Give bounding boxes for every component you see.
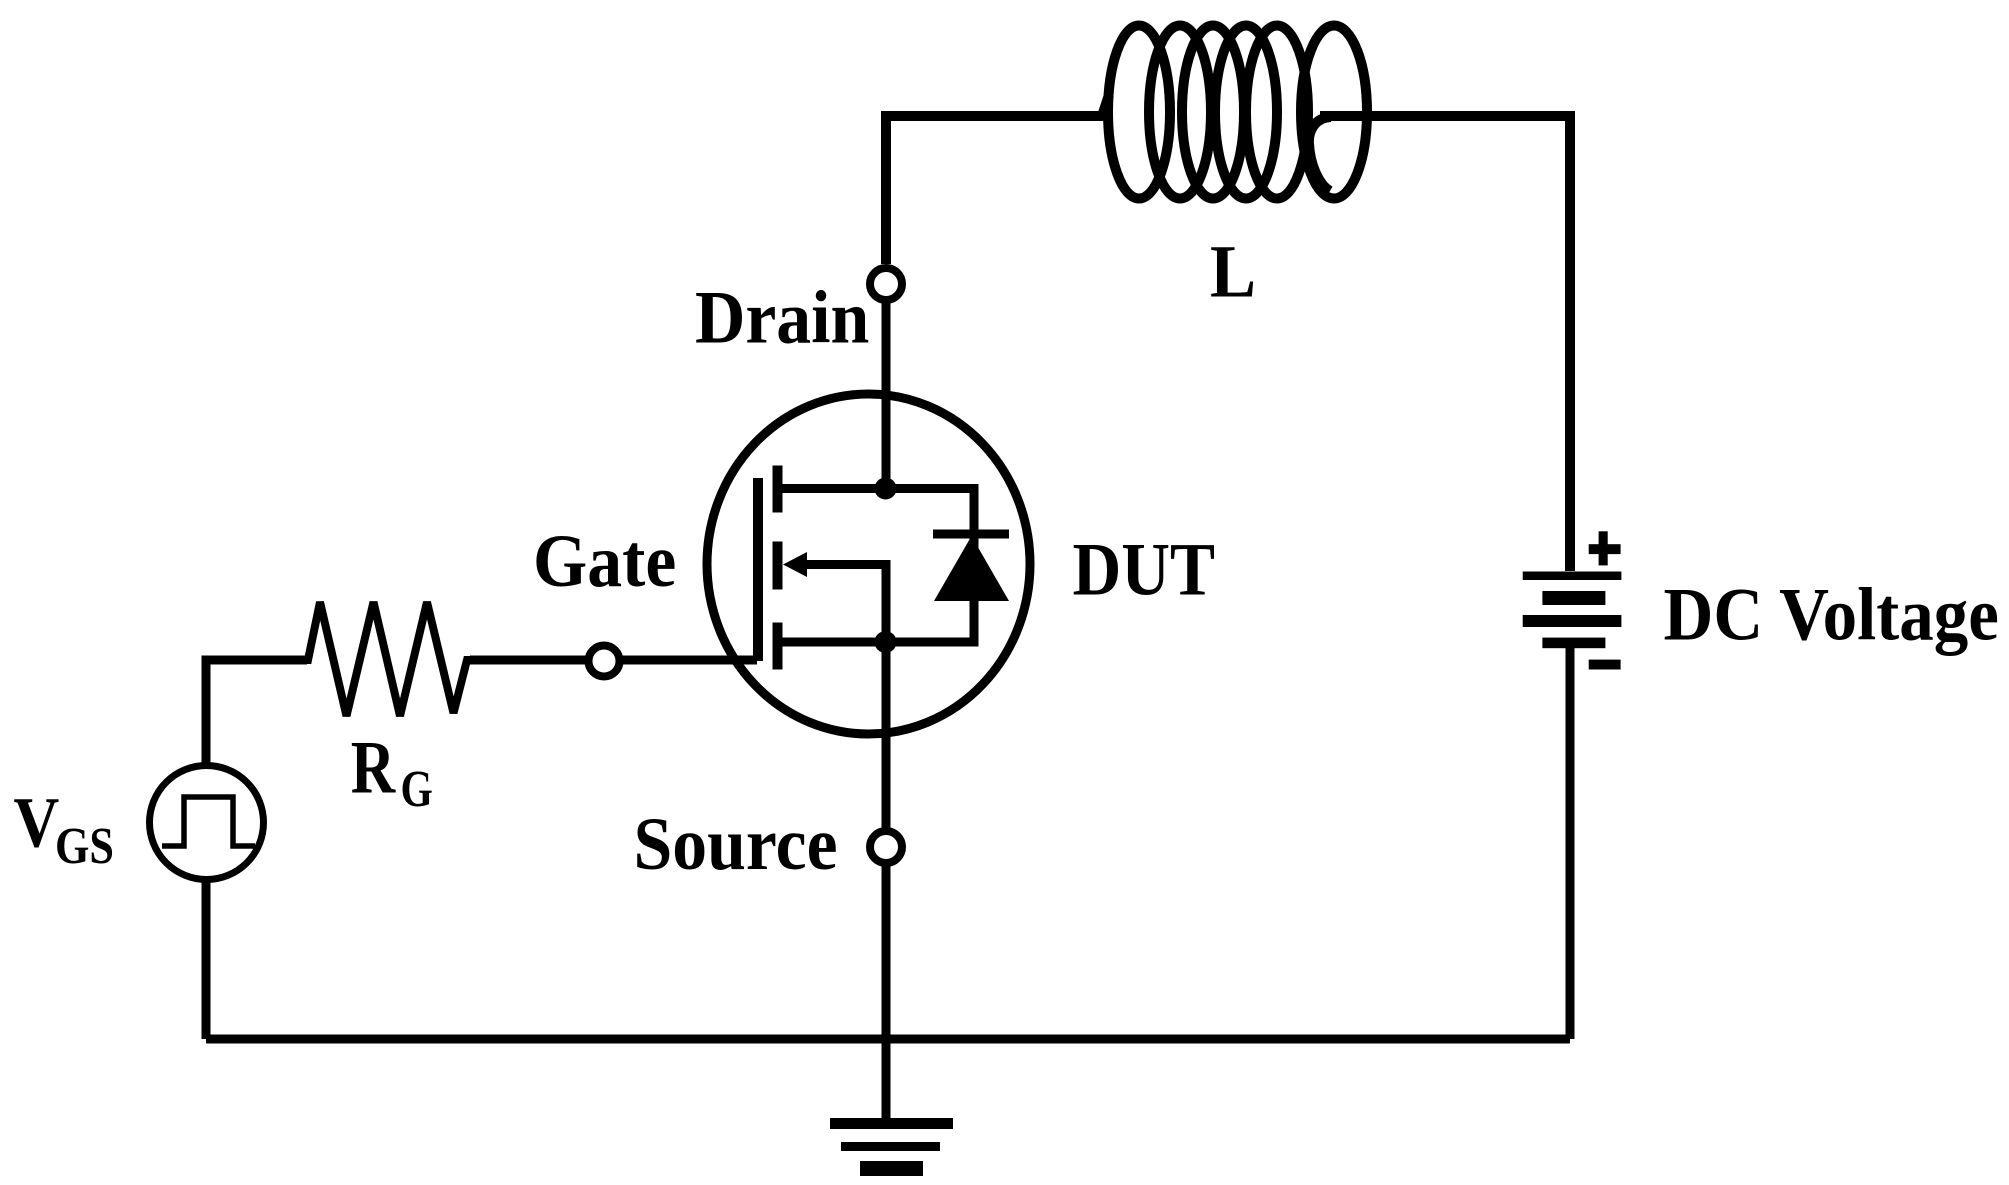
wire: right lower from battery to bottom rail — [1566, 648, 1575, 1039]
svg-text:Drain: Drain — [695, 275, 869, 359]
svg-text:G: G — [401, 761, 433, 818]
wire: left column upper (Vgs to corner) and horizontal to resistor — [206, 660, 307, 766]
svg-text:DUT: DUT — [1073, 528, 1215, 611]
MOSFET body arrow line — [806, 565, 886, 643]
wire: left column lower (bottom rail to Vgs source) — [202, 880, 211, 1039]
ground bar 3 — [860, 1161, 923, 1176]
battery B1 plate 1 (long top) — [1523, 572, 1622, 581]
svg-text:GS: GS — [55, 818, 114, 875]
battery B1 plate 4 (short) — [1542, 638, 1605, 649]
MOSFET gate electrode bar — [753, 478, 763, 661]
inductor L — [1108, 26, 1367, 199]
ground bar 1 — [830, 1118, 953, 1129]
MOSFET channel segment bottom — [773, 623, 783, 670]
MOSFET channel segment top — [773, 466, 783, 513]
body diode cathode bar — [933, 530, 1009, 539]
svg-text:Gate: Gate — [533, 519, 676, 603]
MOSFET drain internal horizontal, right branch and source internal horizontal — [777, 489, 974, 643]
svg-text:DC Voltage: DC Voltage — [1664, 573, 1999, 656]
battery B1 plate 3 (long) — [1523, 615, 1622, 627]
MOSFET body arrowhead — [783, 552, 807, 577]
MOSFET channel segment middle — [773, 542, 783, 590]
wire: gate lead from resistor to gate terminal — [470, 656, 588, 665]
wire: top right segment from inductor to battery — [1320, 116, 1570, 571]
battery B1 plus sign — [1589, 531, 1621, 565]
svg-text:V: V — [14, 783, 60, 863]
pulse source VGS circle — [150, 766, 264, 880]
source junction dot — [875, 631, 897, 653]
svg-text:R: R — [351, 726, 397, 809]
MOSFET DUT body circle — [707, 394, 1030, 734]
wire: source internal to source terminal — [882, 642, 891, 829]
resistor RG zigzag — [302, 602, 472, 716]
drain junction dot — [875, 478, 897, 500]
body diode triangle — [934, 536, 1009, 601]
wire: drain terminal to MOSFET internals — [882, 302, 891, 489]
wire: top left segment from drain column to inductor — [886, 95, 1109, 264]
wire: gate lead from terminal into MOSFET — [620, 656, 757, 665]
wire: bottom rail — [206, 1035, 1570, 1044]
drain terminal node (open circle) — [870, 268, 902, 300]
battery B1 plate 2 (short) — [1542, 591, 1605, 605]
ground bar 2 — [841, 1142, 940, 1151]
gate terminal node (open circle) — [589, 646, 620, 677]
wire: source terminal down through bottom rail to ground — [882, 865, 891, 1122]
svg-text:L: L — [1210, 230, 1256, 313]
source terminal node (open circle) — [870, 831, 902, 863]
svg-text:Source: Source — [634, 802, 838, 886]
battery B1 minus sign — [1589, 660, 1621, 670]
pulse waveform inside VGS — [162, 797, 255, 846]
